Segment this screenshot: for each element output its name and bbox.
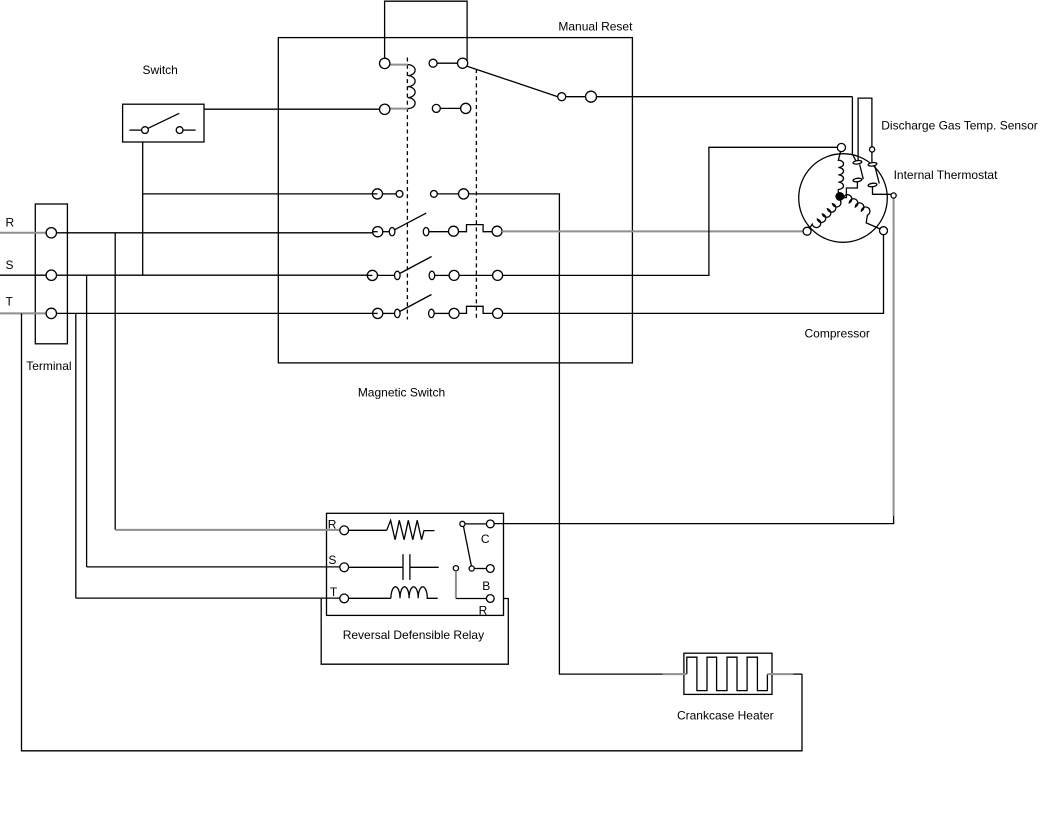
crankcase heater right lead (grey) <box>767 673 793 675</box>
terminal block box <box>35 204 67 344</box>
mechanical linkage dashed line 1 <box>406 58 408 320</box>
wire R bus incoming (grey) <box>0 232 51 234</box>
svg-text:R: R <box>328 518 337 532</box>
relay inner box <box>327 513 504 615</box>
contact row T right big circle <box>493 308 503 318</box>
contact row R right small circle <box>423 228 429 236</box>
wire internal thermostat down (grey) <box>893 198 895 516</box>
compressor body circle <box>799 154 888 243</box>
wire R bus to magnetic switch <box>51 232 373 234</box>
contact row A stub <box>437 62 457 64</box>
internal thermostat bottom pad <box>868 183 877 188</box>
svg-text:R: R <box>479 604 488 618</box>
relay pole small circle <box>453 566 458 571</box>
relay contact C stub <box>465 523 486 525</box>
crankcase heater left lead (grey) <box>663 673 687 675</box>
svg-text:Compressor: Compressor <box>805 327 870 341</box>
internal thermostat terminal circle <box>891 193 896 198</box>
compressor top winding <box>838 152 843 195</box>
switch right contact circle <box>176 127 183 134</box>
terminal T circle <box>46 308 56 318</box>
wire end into row T big circle <box>373 312 378 314</box>
wire row T to compressor right terminal <box>503 235 884 314</box>
contact row A big circle <box>458 58 468 68</box>
contact row 1 left big circle <box>372 189 382 199</box>
switch left contact circle <box>142 127 149 134</box>
svg-text:S: S <box>328 553 336 567</box>
wire long return from T bus to crankcase heater <box>22 313 803 750</box>
contact row T left stub <box>383 312 395 314</box>
wire T bus to magnetic switch <box>51 312 373 314</box>
relay S lead <box>349 566 403 568</box>
contact row T left small circle <box>395 309 401 317</box>
contact row R crossover bump <box>459 225 493 232</box>
wire S bus incoming <box>0 274 368 276</box>
manual reset small circle <box>558 93 566 101</box>
svg-text:C: C <box>481 532 490 546</box>
contact row R right stub <box>429 231 449 233</box>
discharge sensor loop wire <box>858 98 872 162</box>
relay S terminal circle <box>340 563 349 572</box>
discharge sensor terminal circle <box>870 147 875 152</box>
wire relay C to internal thermostat <box>494 516 893 524</box>
terminal R circle <box>46 228 56 238</box>
compressor right winding <box>843 195 880 229</box>
crankcase heater exit wire <box>793 673 802 675</box>
crankcase heater element <box>687 657 768 690</box>
compressor left terminal <box>803 227 811 235</box>
wire end into row 1 big circle <box>372 193 377 195</box>
svg-text:Internal Thermostat: Internal Thermostat <box>894 168 998 182</box>
coil MC top stub (grey) <box>390 64 408 66</box>
terminal S circle <box>46 270 56 280</box>
contact row T arm <box>400 295 432 312</box>
capacitor plate right <box>409 554 411 580</box>
coil MC top terminal circle <box>380 58 390 68</box>
relay R terminal circle <box>340 526 349 535</box>
mechanical linkage dashed line 2 <box>475 69 477 320</box>
wire manual reset to sensor <box>597 96 853 98</box>
wire relay T feed <box>76 597 340 599</box>
coil MC bottom stub (grey) <box>390 108 408 110</box>
contact row S mid big circle <box>449 270 459 280</box>
contact row T mid big circle <box>449 308 459 318</box>
discharge sensor contact top pad <box>853 160 862 165</box>
wire relay S feed <box>87 566 340 568</box>
wire switch down to S bus <box>142 142 144 275</box>
relay contact B stub <box>474 568 486 570</box>
manual reset big circle <box>586 91 597 102</box>
contact row 1 right big circle <box>459 189 469 199</box>
contact row S left small circle <box>395 271 401 279</box>
contact row T right small circle <box>429 309 435 317</box>
discharge sensor contact arm <box>860 165 864 180</box>
contact row 1 right small circle <box>431 191 438 198</box>
contact row R left stub <box>383 231 390 233</box>
contact row B big circle <box>461 103 471 113</box>
contact row T right stub <box>434 312 449 314</box>
switch box <box>123 104 204 142</box>
wire T drop to relay <box>75 313 77 598</box>
contact row B stub <box>440 107 460 109</box>
wire row1 left feed <box>143 193 373 195</box>
contact row A small circle <box>429 59 437 67</box>
svg-text:B: B <box>482 579 490 593</box>
contact row S arm <box>400 257 432 274</box>
wire S drop to relay <box>86 275 88 567</box>
internal thermostat to terminal <box>873 187 892 195</box>
relay contact R big circle <box>486 595 494 603</box>
wire T bus incoming (grey) <box>0 312 51 314</box>
wire end into row S big circle <box>367 274 372 276</box>
contact row R arm <box>395 213 427 230</box>
magnetic switch box <box>278 38 632 363</box>
contact row T left big circle <box>373 308 383 318</box>
relay contact C big circle <box>486 520 494 528</box>
relay pole wire to R output <box>456 598 487 600</box>
svg-text:Reversal Defensible Relay: Reversal Defensible Relay <box>343 628 484 642</box>
svg-text:T: T <box>6 294 14 308</box>
crankcase heater box <box>684 653 772 694</box>
relay T terminal circle <box>340 594 349 603</box>
switch right lead <box>183 129 196 131</box>
wire relay R feed (grey) <box>115 529 340 531</box>
contact row 1 left stub <box>382 193 396 195</box>
relay contact mid small circle <box>469 566 474 571</box>
capacitor plate left <box>402 554 404 580</box>
wire R drop to relay <box>114 233 116 530</box>
contact row S left stub <box>377 274 394 276</box>
discharge sensor lead down <box>852 97 855 161</box>
discharge sensor contact bottom pad <box>853 178 862 183</box>
manual reset diagonal arm <box>466 66 558 97</box>
contact row R right big circle <box>492 226 502 236</box>
coil MC bottom terminal circle <box>380 104 390 114</box>
contact row B small circle <box>432 104 440 112</box>
resistor <box>387 520 435 539</box>
wire row S to compressor top <box>503 147 838 275</box>
relay contact C small circle <box>460 521 465 526</box>
manual reset button U-shape <box>385 1 468 60</box>
manual reset stub <box>566 96 586 98</box>
relay pole wire down (grey) <box>455 571 457 599</box>
contact row S right stub <box>435 274 450 276</box>
wire row 1 to crankcase heater <box>468 194 684 674</box>
svg-text:S: S <box>6 258 14 272</box>
relay outer wire loop <box>321 599 508 665</box>
coil MC winding <box>408 65 415 109</box>
relay R lead <box>349 529 387 531</box>
discharge sensor to star point <box>844 182 858 198</box>
relay contact arm <box>464 527 472 566</box>
svg-text:Crankcase Heater: Crankcase Heater <box>677 708 774 722</box>
svg-text:Manual Reset: Manual Reset <box>558 20 633 34</box>
contact row 1 left small circle <box>396 191 403 198</box>
internal thermostat top pad <box>868 162 877 167</box>
inductor <box>391 587 438 599</box>
contact row S left big circle <box>367 270 377 280</box>
svg-text:T: T <box>330 585 338 599</box>
compressor star point <box>836 193 844 201</box>
compressor left winding <box>810 199 841 228</box>
internal thermostat arm <box>875 166 880 184</box>
relay T lead <box>349 597 391 599</box>
contact row T crossover bump <box>459 306 493 313</box>
wire switch to coil <box>204 108 380 110</box>
wire row R to compressor (grey) <box>502 230 803 232</box>
contact row S right small circle <box>429 271 435 279</box>
contact row R left big circle <box>373 227 383 237</box>
compressor top terminal <box>837 143 845 151</box>
contact row R mid big circle <box>449 226 459 236</box>
wire end into row R big circle <box>373 231 378 233</box>
contact row 1 right stub <box>437 193 459 195</box>
switch arm <box>148 113 179 128</box>
relay contact B big circle <box>486 565 494 573</box>
svg-text:Terminal: Terminal <box>26 359 71 373</box>
svg-text:R: R <box>6 216 15 230</box>
contact row S right big circle <box>493 270 503 280</box>
svg-text:Switch: Switch <box>143 63 178 77</box>
svg-text:Magnetic Switch: Magnetic Switch <box>358 386 445 400</box>
capacitor right lead <box>410 566 439 568</box>
switch left lead <box>129 129 141 131</box>
contact row R left small circle <box>389 228 395 236</box>
compressor right terminal <box>880 227 888 235</box>
svg-text:Discharge Gas Temp. Sensor: Discharge Gas Temp. Sensor <box>881 119 1038 133</box>
contact row S straight link <box>459 274 493 276</box>
